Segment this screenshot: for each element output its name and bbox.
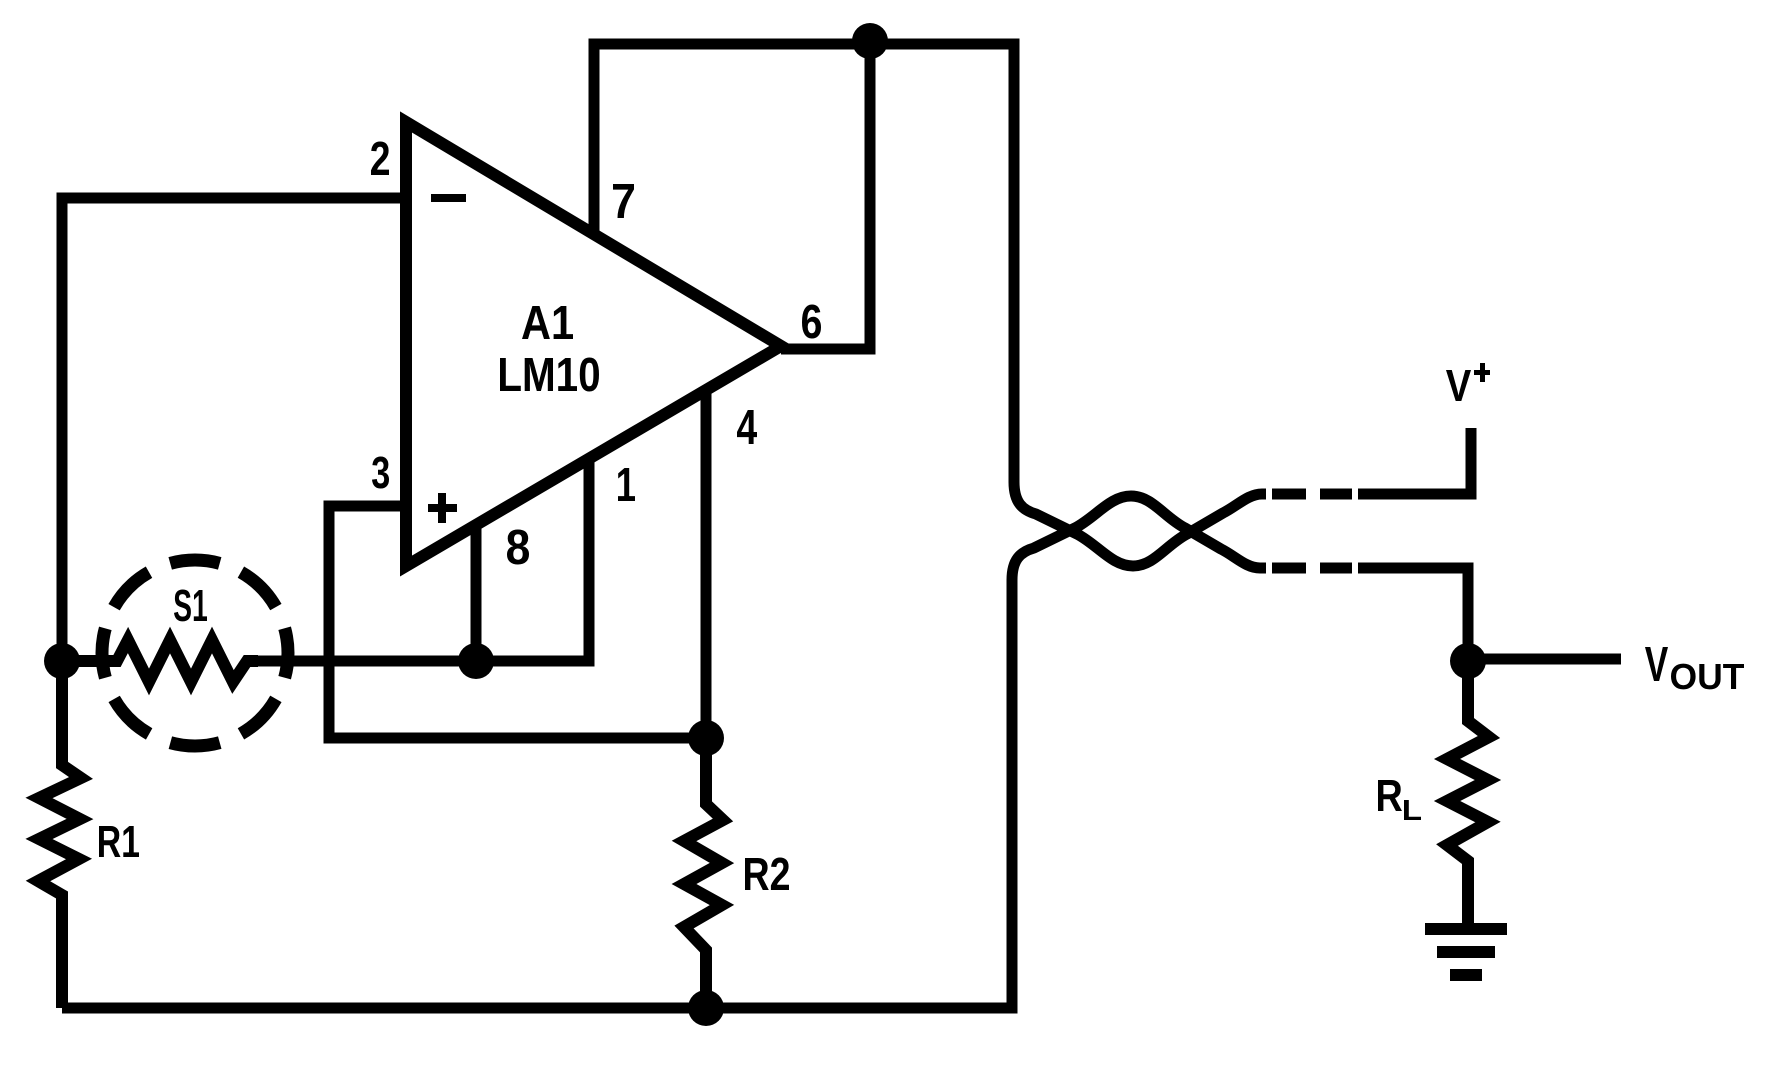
label pin 3 — [372, 457, 389, 489]
resistor RL — [1447, 661, 1489, 929]
wire pin6 output — [781, 44, 870, 349]
node junction pin8 — [458, 643, 494, 679]
node junction pin4 — [688, 720, 724, 756]
label pin 4 — [737, 410, 757, 444]
resistor R2 — [684, 738, 723, 1008]
resistor R1 — [38, 661, 81, 1008]
wire Vout — [1468, 654, 1621, 665]
ground — [1425, 929, 1507, 975]
node junction bottom — [688, 990, 724, 1026]
label RL R — [1378, 780, 1402, 811]
wire dashes lower — [1272, 563, 1352, 574]
wire lower to Vout — [1358, 568, 1468, 661]
wire pin3 loop — [329, 506, 706, 738]
label RL L subscript — [1404, 800, 1421, 820]
op-amp U1 A1 LM10 triangle — [406, 122, 781, 566]
wire pin8 — [471, 525, 482, 661]
label pin 2 — [371, 142, 389, 176]
label R1 — [99, 826, 139, 857]
wire upper to V+ and V+ stub — [1358, 428, 1471, 494]
node junction Vout — [1450, 643, 1486, 679]
wire S1 to pin1 — [258, 459, 589, 661]
label pin 7 — [613, 184, 634, 218]
wire pin7 top rail — [594, 44, 1014, 460]
resistor S1 zigzag — [62, 640, 258, 682]
label S1 — [174, 590, 207, 622]
node junction top — [852, 23, 888, 59]
label A1 — [522, 306, 573, 339]
wire dashes upper — [1272, 489, 1352, 500]
wire pin4 — [701, 388, 712, 738]
label pin 8 — [507, 530, 529, 565]
op-amp minus sign — [431, 194, 466, 202]
label V+ V — [1446, 370, 1471, 401]
label LM10 — [500, 358, 599, 392]
op-amp plus sign — [428, 504, 457, 512]
label pin 6 — [802, 305, 821, 339]
label VOUT OUT subscript — [1671, 664, 1744, 690]
label V+ plus sign — [1474, 370, 1490, 375]
wire twisted pair upper — [1014, 452, 1266, 566]
wire pin2 to left rail — [62, 198, 406, 661]
sensor S1 dashed circle — [102, 560, 288, 746]
label VOUT V — [1645, 647, 1668, 681]
label R2 — [745, 858, 789, 891]
node junction left — [44, 643, 80, 679]
label pin 1 — [618, 468, 635, 501]
wire bottom rail and twisted pair lower — [62, 496, 1266, 1008]
